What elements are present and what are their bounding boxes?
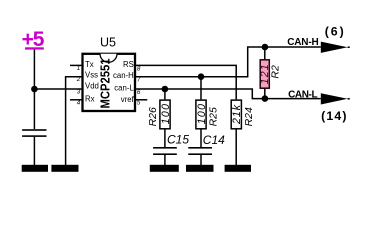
svg-text:R2: R2 (270, 65, 282, 79)
svg-text:vref: vref (121, 95, 135, 104)
wire +5 rail vertical (33, 50, 35, 129)
resistor R25 body (196, 100, 206, 129)
wire C15 to ground (164, 155, 166, 165)
node CAN-L / R2 bottom junction (262, 95, 269, 102)
wire junction to Vdd pin 3 (34, 88, 81, 90)
svg-text:C14: C14 (203, 133, 225, 147)
svg-text:can-H: can-H (113, 71, 134, 80)
wire junction down to R25 (200, 77, 202, 100)
IC U5 MCP2551 CAN transceiver body (83, 54, 136, 111)
svg-text:Vdd: Vdd (85, 81, 99, 90)
svg-text:(6): (6) (325, 25, 344, 39)
svg-text:R24: R24 (243, 107, 255, 126)
node +5/Vdd junction (31, 86, 38, 93)
capacitor C14 body (188, 147, 212, 155)
ground bar 1 (22, 165, 48, 172)
wire R2 bottom lead (264, 89, 266, 99)
wire Rx stub pin 4 (70, 99, 82, 101)
svg-text:R26: R26 (147, 107, 159, 126)
wire R2 top lead (264, 47, 266, 59)
svg-text:can-L: can-L (114, 84, 134, 93)
wire vref stub pin 5 (136, 99, 147, 101)
CAN-H arrow (321, 42, 348, 53)
wire RS pin 8 to R24 (136, 65, 236, 99)
resistor R2 body (260, 60, 269, 88)
wire C14 to ground (200, 155, 202, 165)
svg-text:CAN-H: CAN-H (287, 37, 319, 48)
resistor R24 body (231, 100, 241, 129)
node can-H / R25 junction (198, 73, 205, 80)
wire can-H pin 7 to bend (136, 47, 321, 77)
svg-text:5: 5 (137, 100, 141, 107)
svg-text:(14): (14) (321, 109, 346, 123)
wire Tx stub pin 1 (70, 64, 82, 66)
capacitor C15 body (153, 147, 177, 155)
ground bar 2 (51, 165, 78, 172)
svg-text:Tx: Tx (85, 60, 94, 69)
svg-text:R25: R25 (208, 107, 220, 126)
power +5 label (22, 28, 45, 51)
svg-text:3: 3 (77, 89, 81, 96)
svg-text:MCP2551: MCP2551 (97, 59, 112, 109)
svg-text:6: 6 (137, 89, 141, 96)
ground bar 5 (225, 165, 251, 172)
svg-text:2: 2 (76, 76, 81, 83)
svg-text:100: 100 (160, 104, 172, 124)
svg-text:7: 7 (137, 77, 141, 84)
ground bar 4 (186, 165, 214, 172)
svg-text:RS: RS (123, 60, 134, 69)
wire CAN-L arrow stub (348, 98, 350, 100)
svg-text:CAN-L: CAN-L (288, 89, 318, 100)
wire R25 to C14 (200, 130, 202, 148)
wire R26 to C15 (164, 130, 166, 148)
node CAN-H / R2 top junction (262, 44, 269, 51)
node can-L / R26 junction (162, 86, 169, 93)
svg-text:C15: C15 (167, 132, 189, 146)
wire junction down to R26 (164, 89, 166, 99)
svg-text:Rx: Rx (85, 95, 95, 104)
wire capacitor to ground (33, 137, 35, 165)
ground bar 3 (150, 165, 179, 172)
svg-text:8: 8 (137, 65, 141, 72)
resistor R26 body (160, 100, 170, 129)
svg-text:100: 100 (196, 104, 208, 124)
wire Vss pin 2 to ground (66, 77, 82, 165)
wire can-L pin 6 to bend (136, 89, 321, 99)
svg-text:21k: 21k (231, 104, 243, 125)
svg-text:4: 4 (77, 99, 81, 106)
svg-text:1: 1 (77, 65, 81, 72)
wire R24 to ground (235, 130, 237, 166)
svg-text:U5: U5 (100, 36, 116, 50)
svg-text:Vss: Vss (85, 71, 98, 80)
wire CAN-H arrow stub (348, 46, 350, 48)
capacitor C-bypass left (22, 129, 46, 137)
CAN-L arrow (321, 93, 348, 104)
